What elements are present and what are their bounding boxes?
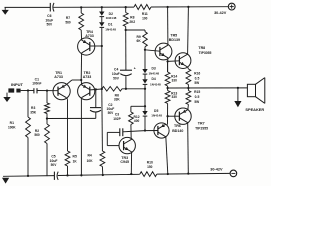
- svg-text:C945: C945: [120, 160, 129, 164]
- wire: TR8 collector to rail: [187, 6, 189, 55]
- resistor R4: [100, 151, 105, 167]
- svg-text:R7: R7: [66, 16, 70, 20]
- svg-text:5W: 5W: [194, 81, 199, 85]
- svg-text:330: 330: [172, 78, 178, 82]
- diode D3: [142, 69, 147, 74]
- resistor R11 (series, top rail): [134, 5, 151, 10]
- transistor TR1: [53, 83, 70, 100]
- wire: bias column D1 to TR2 base node: [101, 28, 103, 89]
- wire: bias column to R4: [101, 89, 104, 151]
- wire: R6 node to diode column: [122, 88, 146, 90]
- resistor R6: [102, 87, 122, 92]
- svg-text:400: 400: [134, 119, 140, 123]
- svg-text:330: 330: [172, 95, 178, 99]
- svg-text:D1: D1: [108, 23, 112, 27]
- svg-text:SPEAKER: SPEAKER: [245, 107, 264, 112]
- wire: R8 to C4: [125, 27, 127, 71]
- label C1 100nF: [32, 78, 41, 86]
- label R3 35K: [30, 106, 37, 114]
- svg-text:5W: 5W: [194, 100, 199, 104]
- label 30-42V (bottom): [210, 168, 223, 172]
- wire: TR8 emitter to R16: [187, 67, 190, 69]
- svg-text:35K: 35K: [30, 110, 37, 114]
- label C3 102P: [113, 113, 121, 121]
- svg-text:6K: 6K: [137, 39, 142, 43]
- capacitor C1: [34, 88, 37, 93]
- capacitor C4: [120, 67, 136, 76]
- node: input line / R3: [46, 89, 48, 91]
- wire: TR7 collector to rail: [187, 122, 189, 174]
- wire: TR5 emitter down: [166, 58, 168, 72]
- wire: D4 to RV2 tap: [144, 85, 146, 108]
- svg-text:1K: 1K: [73, 159, 78, 163]
- svg-text:100: 100: [142, 16, 148, 20]
- node: R16/R15 output junction: [187, 85, 189, 91]
- wire: D5 to TR6 base node: [144, 117, 146, 132]
- label R11 100: [142, 12, 148, 20]
- transistor TR3: [119, 137, 135, 153]
- node: speaker ground tap: [237, 87, 239, 89]
- resistor R2: [45, 124, 50, 144]
- label R10 150: [147, 160, 153, 169]
- svg-text:100K: 100K: [8, 125, 16, 129]
- resistor R8: [123, 13, 128, 27]
- wire: R12 top stub: [131, 106, 145, 112]
- label R15 0.5 5W: [194, 90, 200, 104]
- svg-text:102P: 102P: [113, 117, 121, 121]
- svg-text:+: +: [134, 67, 136, 71]
- node: C2 tap on TR2 base wire: [95, 88, 97, 90]
- svg-text:TR7: TR7: [198, 122, 205, 126]
- svg-text:R5: R5: [73, 155, 77, 159]
- svg-text:BD140: BD140: [172, 129, 183, 133]
- capacitor C2: [90, 89, 101, 112]
- resistor R9: [143, 32, 148, 47]
- svg-text:TR6: TR6: [174, 124, 181, 128]
- wire: D2 to D1: [101, 17, 103, 22]
- node: R3/R2/C2 junction: [46, 114, 48, 125]
- wire: TR2 base to bias column: [90, 88, 103, 90]
- label C4 10uF 50V: [112, 67, 120, 80]
- wire: R5 bottom lead: [66, 166, 68, 177]
- wire: R13 to TR6 collector: [166, 104, 168, 125]
- diode D2: [99, 12, 104, 17]
- wire: TR2 collector to ground rail: [80, 98, 82, 177]
- input jack: [8, 88, 20, 92]
- wire: emitter tail junction: [66, 79, 82, 85]
- capacitor C3: [107, 128, 123, 136]
- label C6 10uF 50V: [45, 14, 53, 27]
- label R14 330: [171, 75, 177, 83]
- svg-text:R1: R1: [10, 121, 14, 125]
- svg-text:R15: R15: [194, 90, 200, 94]
- label R2 560: [34, 129, 40, 137]
- resistor R7: [79, 6, 84, 30]
- wire: TR6 collector to rail: [166, 136, 169, 175]
- wire: TR1 collector to R5: [66, 98, 67, 151]
- svg-text:TR8: TR8: [198, 46, 205, 50]
- svg-text:R8: R8: [130, 16, 134, 20]
- svg-text:100nF: 100nF: [32, 82, 41, 86]
- svg-text:10uF: 10uF: [112, 72, 120, 76]
- wire: input to C1: [21, 90, 34, 92]
- svg-text:50V: 50V: [46, 23, 53, 27]
- svg-text:33K: 33K: [114, 98, 121, 102]
- wire: output node to speaker: [168, 87, 248, 89]
- svg-text:D3: D3: [151, 66, 155, 70]
- svg-text:R4: R4: [87, 153, 91, 157]
- terminal -30-42V: [230, 170, 237, 177]
- svg-text:1N4148: 1N4148: [105, 28, 116, 32]
- wire: R7 to TR4 emitter: [80, 30, 82, 40]
- diode D1: [99, 22, 104, 27]
- svg-text:50V: 50V: [51, 163, 58, 167]
- svg-text:30-42V: 30-42V: [214, 11, 227, 15]
- label R1 100K: [8, 121, 16, 129]
- wire: R2 bottom lead: [46, 144, 48, 177]
- svg-text:30-42V: 30-42V: [210, 168, 223, 172]
- wire: TR6 base: [145, 130, 158, 132]
- wire: R1 top lead: [27, 91, 29, 118]
- label TR3 C945: [120, 156, 129, 164]
- svg-text:1N4148: 1N4148: [106, 16, 117, 20]
- wire: bottom rail right segment: [157, 172, 230, 175]
- resistor R13: [165, 91, 170, 104]
- label C2 10uF 50V: [106, 103, 114, 115]
- label R12 400: [134, 115, 140, 123]
- svg-text:TIP2955: TIP2955: [195, 127, 208, 131]
- capacitor C6 (series, top rail): [50, 3, 54, 12]
- label TR7 TIP2955: [195, 122, 208, 131]
- speaker: [247, 78, 264, 104]
- svg-text:A733: A733: [54, 75, 63, 79]
- wire: R15 to TR7 emitter: [187, 105, 190, 111]
- diode D5: [142, 111, 147, 116]
- wire: bias column top: [101, 6, 103, 11]
- label R9 6K: [136, 35, 141, 43]
- wire: TR3 emitter to rail: [130, 152, 132, 175]
- wire: R12 to TR3 collector: [130, 125, 132, 140]
- resistor R3: [45, 103, 50, 114]
- svg-text:10K: 10K: [87, 159, 94, 163]
- svg-text:A733: A733: [85, 34, 94, 38]
- resistor R10 (series, bottom rail): [140, 172, 157, 177]
- wire: TR4 collector to tail: [80, 53, 82, 80]
- svg-text:50V: 50V: [113, 77, 120, 81]
- wire: TR5 base: [145, 50, 160, 51]
- svg-text:C4: C4: [114, 67, 118, 71]
- label D1 1N4148: [105, 23, 116, 32]
- label R13 330: [171, 91, 177, 99]
- resistor R5: [65, 151, 70, 166]
- svg-text:50V: 50V: [108, 111, 115, 115]
- transistor TR5: [155, 43, 172, 60]
- resistor R16: [186, 69, 191, 85]
- label R16 0.5 5W: [194, 72, 200, 85]
- label INPUT: [11, 82, 24, 87]
- ground (speaker return): [234, 88, 241, 107]
- svg-text:TR5: TR5: [170, 34, 177, 38]
- svg-text:1N4148: 1N4148: [148, 71, 159, 75]
- capacitor C5 (series, bottom rail): [54, 172, 58, 180]
- node: R14/R13 output junction: [166, 86, 168, 91]
- transistor TR6: [154, 123, 169, 138]
- label TR1 A733: [54, 71, 63, 79]
- preset resistor R12 (bias): [129, 112, 134, 125]
- svg-text:BD139: BD139: [169, 38, 180, 42]
- label R8 2K2: [129, 16, 135, 25]
- svg-text:A733: A733: [83, 75, 92, 79]
- wire: R8 top lead: [125, 6, 127, 12]
- wire: C3 to TR6 base node: [123, 131, 145, 132]
- resistor R1: [26, 117, 31, 138]
- terminal +30-42V: [228, 3, 235, 10]
- wire: C2 return to R2/R3 node: [47, 112, 96, 118]
- svg-text:D5: D5: [154, 109, 158, 113]
- wire: R4 bottom lead: [102, 167, 104, 177]
- label D5 1N4148: [151, 109, 162, 118]
- wire: C1 to TR1 base: [37, 90, 57, 92]
- wire: bottom rail left segment: [3, 175, 54, 178]
- svg-text:1N4148: 1N4148: [151, 113, 162, 117]
- label TR2 A733: [83, 71, 92, 79]
- svg-text:R10: R10: [147, 160, 153, 164]
- label D3 1N4148: [148, 66, 159, 75]
- wire: TR3 base riser: [107, 132, 119, 145]
- wire: TR7 base: [168, 115, 179, 117]
- ground (bottom left): [2, 178, 9, 184]
- svg-text:560: 560: [65, 20, 71, 24]
- label TR8 TIP3055: [198, 46, 211, 55]
- label TR5 BD139: [169, 34, 180, 42]
- label TR6 BD140: [172, 124, 183, 133]
- label R4 10K: [87, 153, 94, 163]
- label R7 560: [65, 16, 71, 25]
- wire: D4/D5 segment: [144, 106, 146, 111]
- node: input line / R1: [27, 89, 29, 91]
- label 30-42V (top): [214, 11, 227, 15]
- svg-text:0.5: 0.5: [195, 76, 200, 80]
- resistor R14: [165, 62, 170, 86]
- svg-text:150: 150: [147, 165, 153, 169]
- wire: TR5 collector to rail: [166, 6, 168, 45]
- diode D4: [142, 79, 147, 84]
- label C5 10uF 50V: [50, 155, 58, 168]
- svg-text:2K2: 2K2: [129, 20, 135, 24]
- wire: R8 column to R9: [126, 30, 145, 32]
- node: TR5 base junction: [144, 49, 146, 51]
- transistor TR8: [175, 53, 191, 69]
- wire: D3 to D4: [144, 75, 146, 80]
- svg-text:INPUT: INPUT: [11, 82, 24, 87]
- wire: TR4 base: [90, 45, 103, 47]
- wire: positive supply rail (top): [5, 6, 229, 9]
- transistor TR7: [175, 108, 191, 124]
- label TR4 A733: [85, 30, 94, 38]
- ground (input): [3, 93, 10, 102]
- svg-text:560: 560: [34, 133, 40, 137]
- svg-text:TR3: TR3: [121, 156, 128, 160]
- wire: bottom rail mid segment: [58, 174, 140, 175]
- resistor R15: [186, 91, 191, 105]
- svg-text:0.5: 0.5: [195, 95, 200, 99]
- wire: R1 bottom lead: [27, 138, 29, 178]
- wire: C4 to R6 node: [125, 76, 127, 90]
- transistor TR4: [78, 38, 95, 55]
- svg-text:R16: R16: [194, 72, 200, 76]
- ground (top left): [2, 7, 9, 14]
- label D2 1N4148: [106, 12, 117, 20]
- wire: R3 top lead: [46, 91, 48, 103]
- label SPEAKER: [245, 107, 264, 112]
- wire: R9 to D3: [144, 47, 146, 69]
- svg-text:1N4148: 1N4148: [150, 82, 161, 86]
- wire: TR8 base: [168, 60, 180, 63]
- label D4 1N4148: [150, 77, 161, 86]
- transistor TR2: [78, 83, 95, 100]
- svg-text:TIP3055: TIP3055: [199, 51, 212, 55]
- label R5 1K: [73, 155, 78, 164]
- svg-text:D4: D4: [151, 77, 155, 81]
- label R6 33K: [114, 94, 121, 102]
